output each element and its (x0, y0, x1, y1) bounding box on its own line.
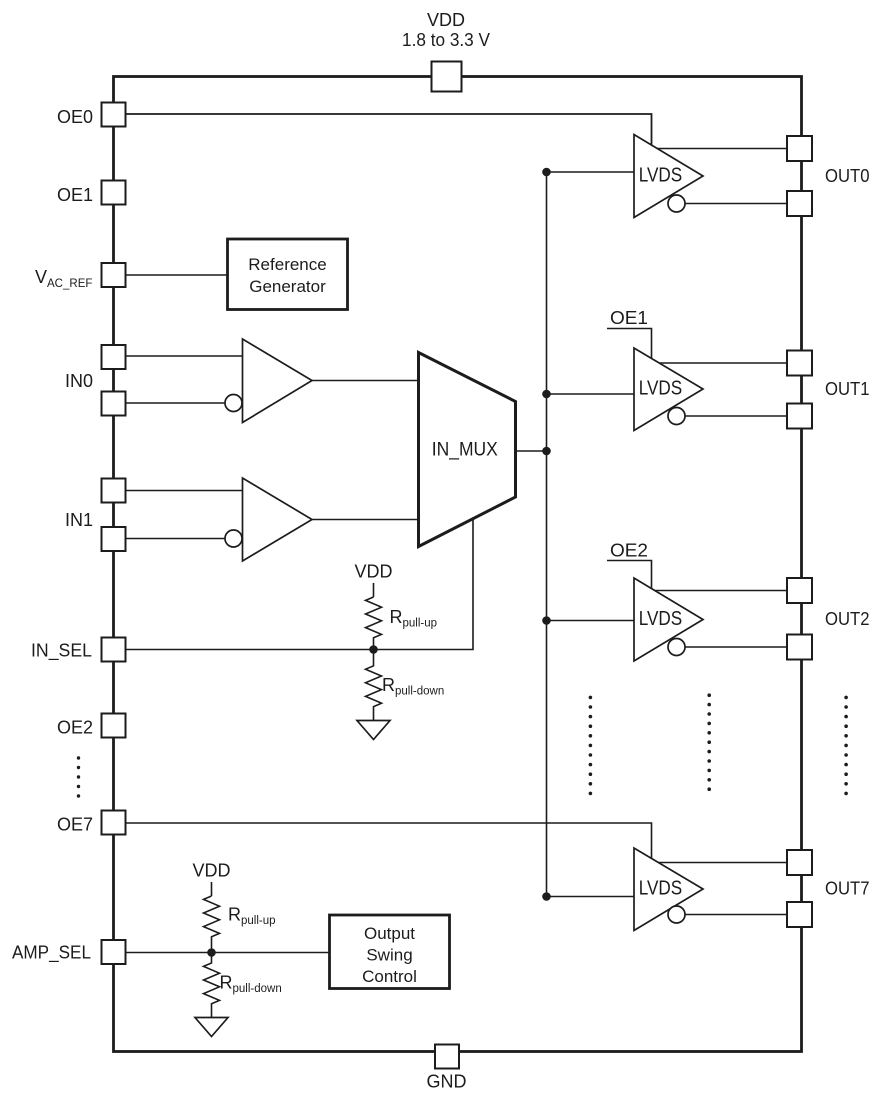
node OE1 enable label and wire (607, 308, 652, 359)
pin OUT7 complement (787, 902, 812, 927)
ground symbol (AMP_SEL divider) (195, 1018, 228, 1037)
chip outline (114, 77, 802, 1052)
Reference Generator block (228, 239, 348, 310)
pin OUT0 complement (787, 191, 812, 216)
pin OE0 (102, 103, 126, 127)
pin OUT7 true (787, 850, 812, 875)
LVDS U5 output complement wire (685, 646, 787, 648)
pin OE1 (102, 181, 126, 205)
resistor R pull-up (IN_SEL) (366, 597, 382, 650)
wire AMP_SEL net to Output Swing Control (126, 952, 330, 954)
ellipsis dots OE2..OE7 (left) (77, 756, 80, 797)
ellipsis dots OUT2..OUT7 labels column (844, 696, 848, 796)
node junction dot bus/LVDS U3 (542, 168, 551, 177)
wire VAC_REF to Reference Generator (126, 274, 228, 276)
svg-text:VDD: VDD (354, 562, 392, 582)
node OE2 enable label and wire (607, 541, 652, 589)
svg-text:LVDS: LVDS (639, 378, 683, 400)
op-amp U2 input buffer IN1 (225, 478, 312, 561)
pin VDD (top) (432, 62, 462, 92)
wire IN_SEL net (126, 519, 474, 650)
svg-text:OUT0: OUT0 (825, 166, 870, 186)
wire IN0 non-inverting input (126, 355, 243, 357)
node junction dot bus/LVDS U5 (542, 616, 551, 625)
resistor R pull-down (AMP_SEL) (204, 953, 220, 1018)
LVDS U3 output complement wire (685, 203, 787, 205)
svg-text:OE1: OE1 (57, 185, 93, 205)
pin OE7 (102, 811, 126, 835)
wire bus to LVDS U4 input (547, 393, 635, 395)
ground symbol (IN_SEL divider) (357, 721, 390, 740)
resistor R pull-up (AMP_SEL) (204, 896, 220, 953)
pin VAC_REF (102, 263, 126, 287)
pin OUT2 true (787, 578, 812, 603)
wire buffer U2 output to IN_MUX (312, 519, 419, 521)
svg-text:LVDS: LVDS (639, 608, 683, 630)
svg-text:AMP_SEL: AMP_SEL (12, 943, 91, 964)
pin GND (bottom) (435, 1045, 459, 1069)
svg-text:OE0: OE0 (57, 107, 93, 127)
svg-text:1.8 to 3.3 V: 1.8 to 3.3 V (402, 30, 490, 50)
op-amp U4 LVDS driver OUT1 (634, 348, 703, 431)
wire IN_MUX output to bus (516, 450, 547, 452)
wire bus to LVDS U6 input (547, 896, 635, 898)
resistor R pull-down (IN_SEL) (366, 650, 382, 721)
op-amp U6 LVDS driver OUT7 (634, 848, 703, 931)
node junction dot IN_SEL divider (369, 645, 378, 654)
svg-text:OE1: OE1 (610, 308, 648, 328)
pin IN_SEL (102, 638, 126, 662)
ellipsis dots LVDS column (589, 696, 593, 796)
svg-text:OE2: OE2 (57, 718, 93, 738)
svg-text:OUT1: OUT1 (825, 379, 870, 399)
svg-text:LVDS: LVDS (639, 878, 683, 900)
svg-text:VDD: VDD (192, 861, 230, 881)
pin IN1 negative (102, 527, 126, 551)
svg-text:OE7: OE7 (57, 815, 93, 835)
wire IN1 inverting input (126, 538, 226, 540)
pin OUT2 complement (787, 635, 812, 660)
pin AMP_SEL (102, 940, 126, 964)
node junction dot bus/IN_MUX output (542, 447, 551, 456)
pin OUT0 true (787, 136, 812, 161)
op-amp U5 LVDS driver OUT2 (634, 578, 703, 661)
wire OE0 net (pin OE0 to LVDS U3 enable) (126, 114, 652, 145)
op-amp U1 input buffer IN0 (225, 339, 312, 423)
node junction dot bus/LVDS U4 (542, 390, 551, 399)
node junction dot AMP_SEL divider (207, 948, 216, 957)
wire OE7 net (pin OE7 to LVDS U6 enable) (126, 823, 652, 859)
wire IN0 inverting input (126, 402, 226, 404)
wire IN1 non-inverting input (126, 490, 243, 492)
LVDS U4 output true wire (659, 362, 787, 364)
svg-text:LVDS: LVDS (639, 165, 683, 187)
pin OE2 (102, 714, 126, 738)
Output Swing Control block (330, 915, 450, 989)
LVDS U5 output true wire (655, 590, 787, 592)
wire bus to LVDS U3 input (547, 171, 635, 173)
node junction dot bus/LVDS U6 (542, 892, 551, 901)
svg-text:OUT7: OUT7 (825, 879, 870, 899)
svg-text:Reference: Reference (248, 255, 326, 274)
multiplexer IN_MUX (419, 353, 516, 547)
svg-text:Generator: Generator (249, 277, 326, 296)
LVDS U3 output true wire (657, 148, 788, 150)
wire clock distribution bus (546, 172, 548, 897)
wire VDD lead to R pull-up (373, 583, 375, 597)
svg-text:IN_MUX: IN_MUX (432, 440, 498, 461)
svg-text:VDD: VDD (427, 10, 465, 30)
pin IN0 negative (102, 392, 126, 416)
svg-text:GND: GND (427, 1072, 467, 1092)
svg-text:Output: Output (364, 924, 415, 943)
svg-text:OUT2: OUT2 (825, 609, 870, 629)
svg-text:Swing: Swing (366, 946, 412, 965)
pin IN0 positive (102, 345, 126, 369)
pin OUT1 true (787, 351, 812, 376)
LVDS U6 output true wire (658, 862, 787, 864)
wire VDD lead to R pull-up (211, 882, 213, 896)
op-amp U3 LVDS driver OUT0 (634, 135, 703, 218)
wire buffer U1 output to IN_MUX (312, 380, 419, 382)
ellipsis dots output pins column (707, 693, 711, 791)
svg-text:OE2: OE2 (610, 541, 648, 561)
LVDS U6 output complement wire (685, 914, 787, 916)
svg-text:IN0: IN0 (65, 371, 93, 391)
svg-text:IN1: IN1 (65, 510, 93, 530)
svg-text:Control: Control (362, 967, 417, 986)
pin OUT1 complement (787, 404, 812, 429)
pin IN1 positive (102, 479, 126, 503)
wire bus to LVDS U5 input (547, 620, 635, 622)
LVDS U4 output complement wire (685, 415, 787, 417)
svg-text:IN_SEL: IN_SEL (31, 641, 92, 662)
